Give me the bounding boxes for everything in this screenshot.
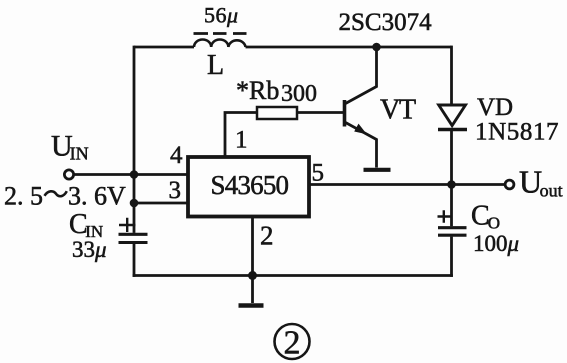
svg-text:3: 3	[169, 177, 182, 204]
svg-text:L: L	[207, 50, 224, 81]
svg-text:UIN: UIN	[51, 130, 89, 164]
svg-text:2. 5: 2. 5	[4, 182, 43, 211]
svg-text:2: 2	[260, 221, 274, 251]
svg-text:VT: VT	[380, 95, 416, 126]
svg-text:3. 6V: 3. 6V	[68, 182, 126, 211]
svg-text:5: 5	[312, 160, 325, 187]
svg-text:CO: CO	[471, 201, 500, 233]
svg-text:100μ: 100μ	[473, 231, 519, 256]
svg-text:4: 4	[170, 142, 183, 169]
svg-text:S43650: S43650	[211, 170, 289, 200]
svg-text:VD: VD	[477, 94, 513, 121]
svg-text:56μ: 56μ	[204, 3, 239, 28]
svg-text:33μ: 33μ	[72, 237, 107, 262]
svg-text:Uout: Uout	[519, 164, 563, 201]
svg-text:1N5817: 1N5817	[475, 119, 559, 146]
svg-text:300: 300	[281, 81, 317, 107]
svg-text:2SC3074: 2SC3074	[339, 9, 433, 36]
svg-text:*Rb: *Rb	[236, 76, 279, 105]
svg-text:1: 1	[235, 127, 248, 154]
svg-text:2: 2	[284, 325, 301, 362]
